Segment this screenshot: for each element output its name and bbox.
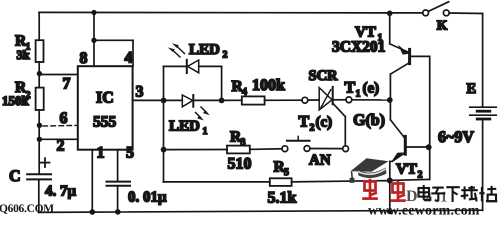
svg-text:T: T (345, 80, 356, 97)
svg-text:3: 3 (241, 137, 246, 148)
wire left bus top (to R1) (38, 12, 40, 40)
wire LED2 branch right (199, 65, 222, 67)
wire pin1 to bottom rail (91, 150, 93, 213)
svg-text:5: 5 (284, 167, 289, 178)
node LED junction right (219, 98, 225, 104)
svg-text:1: 1 (203, 126, 208, 137)
wire LED2 branch right vertical (221, 66, 223, 100)
wire R5 to VT2 emitter line (292, 181, 390, 182)
svg-text:C: C (9, 168, 21, 185)
transistor VT1 (390, 13, 430, 138)
switch K (423, 10, 429, 16)
wire pin3 to LED1 (164, 99, 183, 101)
battery E (470, 107, 496, 119)
wire bottom rail (39, 210, 483, 212)
node terminal circle left of SCR (302, 97, 308, 103)
wire R4 to terminal (265, 99, 302, 101)
svg-text:3CX201: 3CX201 (332, 39, 385, 56)
wire pin3 (133, 99, 164, 101)
svg-text:www.eeworm.com: www.eeworm.com (368, 204, 480, 218)
svg-text:4: 4 (125, 50, 133, 67)
watermark graduation cap logo (350, 158, 389, 183)
svg-text:Q606.COM: Q606.COM (0, 203, 54, 215)
node terminal circle right of SCR (346, 97, 352, 103)
node pin3 junction (161, 98, 167, 104)
wire pin4 loop horizontal (94, 39, 133, 41)
capacitor C polarized (27, 174, 51, 179)
wire inner rail VT1 base down (429, 56, 431, 179)
svg-text:4. 7μ: 4. 7μ (45, 184, 77, 200)
LED1 light arrows (196, 107, 210, 121)
node pin6 junction (37, 123, 42, 128)
svg-text:AN: AN (309, 153, 331, 169)
wire LED1 to junction (193, 99, 221, 101)
svg-text:2: 2 (310, 123, 315, 134)
wire top rail right segment (449, 12, 482, 15)
svg-text:SCR: SCR (309, 68, 339, 84)
wire pin7 (39, 74, 77, 76)
svg-text:7: 7 (63, 76, 71, 93)
svg-text:LED: LED (189, 42, 220, 58)
node VT2 emitter/bottom rail (387, 209, 393, 215)
capacitor 0.01u (107, 182, 131, 186)
svg-text:E: E (467, 81, 477, 97)
node cap/bottom rail (115, 209, 121, 215)
svg-text:LED: LED (169, 119, 200, 135)
node gate terminal circle G (343, 146, 349, 152)
svg-text:8: 8 (80, 50, 88, 67)
svg-text:2: 2 (57, 138, 65, 155)
wire mid bus vertical (163, 66, 165, 182)
svg-text:(c): (c) (316, 115, 333, 131)
wire SCR gate vertical (344, 117, 346, 146)
svg-text:100k: 100k (252, 77, 285, 94)
wire LED2 branch left (164, 65, 187, 67)
wire 0.01u cap to bottom rail (117, 186, 119, 212)
svg-text:3: 3 (136, 84, 144, 101)
node junction top rail / VT1 emitter (387, 11, 393, 17)
wire right rail upper (482, 14, 484, 107)
wire R1 to R2 (38, 62, 40, 88)
svg-text:4: 4 (242, 87, 247, 98)
op-amp-box IC 555 (78, 66, 133, 150)
resistor R1 (36, 40, 44, 62)
SCR symbol (308, 87, 346, 110)
svg-text:150k: 150k (2, 93, 30, 108)
wire top rail left segment (39, 11, 423, 14)
wire inner rail bottom corner to emitter junction (390, 179, 430, 180)
resistor R5 (270, 178, 292, 186)
svg-text:G(b): G(b) (353, 112, 385, 129)
svg-text:0. 01μ: 0. 01μ (128, 190, 167, 206)
svg-text:2: 2 (223, 50, 228, 61)
wire pin8 vertical (93, 13, 95, 67)
wire R2 down to capacitor C (38, 110, 40, 174)
wire button to gate terminal (310, 148, 343, 150)
node R3 row junction (161, 147, 167, 153)
svg-text:510: 510 (228, 156, 252, 173)
watermark red bug char 1 (362, 179, 378, 199)
node R1/R2 junction (37, 71, 42, 76)
node junction top rail / pin8 (91, 10, 96, 15)
wire SCR gate diagonal (333, 103, 346, 116)
transistor VT2 (390, 136, 429, 211)
svg-text:1: 1 (97, 145, 105, 162)
node R5/emitter junction (387, 178, 393, 184)
wire pin4 vertical (132, 40, 134, 66)
watermark black CJK text dianzi xiazai zhan (419, 185, 498, 202)
wire pin2 (39, 138, 77, 140)
wire LED junction to R4 (222, 99, 242, 101)
resistor R3 (227, 146, 250, 154)
LED D2 (pointing left) (187, 60, 199, 73)
wire R5 row left (164, 181, 270, 183)
resistor R2 (36, 88, 44, 110)
node T1(e) junction (387, 97, 393, 103)
svg-text:K: K (437, 18, 448, 33)
wire R3 to button (250, 148, 282, 151)
wire pin5 down (117, 150, 119, 182)
svg-text:IC: IC (96, 90, 114, 107)
svg-text:5.1k: 5.1k (268, 190, 297, 207)
svg-text:6~9V: 6~9V (438, 129, 474, 146)
wire C to bottom rail (38, 179, 40, 212)
wire R3 row left (164, 149, 228, 151)
wire pin6 dashed (43, 124, 78, 127)
node pin1/bottom rail (90, 209, 96, 215)
svg-text:5: 5 (126, 145, 134, 162)
svg-text:(e): (e) (363, 81, 380, 97)
svg-text:3k: 3k (17, 48, 30, 62)
label + of C (41, 158, 50, 167)
node pin8/pin4 loop junction (91, 38, 96, 43)
node VT2 base junction (426, 144, 432, 150)
LED2 light arrows (168, 43, 185, 57)
resistor R4 (242, 96, 265, 104)
svg-text:D: D (406, 188, 418, 205)
svg-text:6: 6 (60, 110, 68, 127)
svg-text:VT: VT (396, 162, 417, 178)
wire right rail lower (482, 121, 484, 211)
push button AN (282, 136, 310, 151)
svg-text:T: T (299, 114, 310, 131)
LED D1 (pointing right) (182, 95, 193, 107)
wire SCR cathode terminal to VT junction (352, 99, 390, 101)
watermark red bug char 2 (390, 181, 406, 201)
svg-text:555: 555 (93, 114, 117, 131)
node pin2 junction (37, 137, 42, 142)
svg-text:1: 1 (356, 89, 361, 100)
